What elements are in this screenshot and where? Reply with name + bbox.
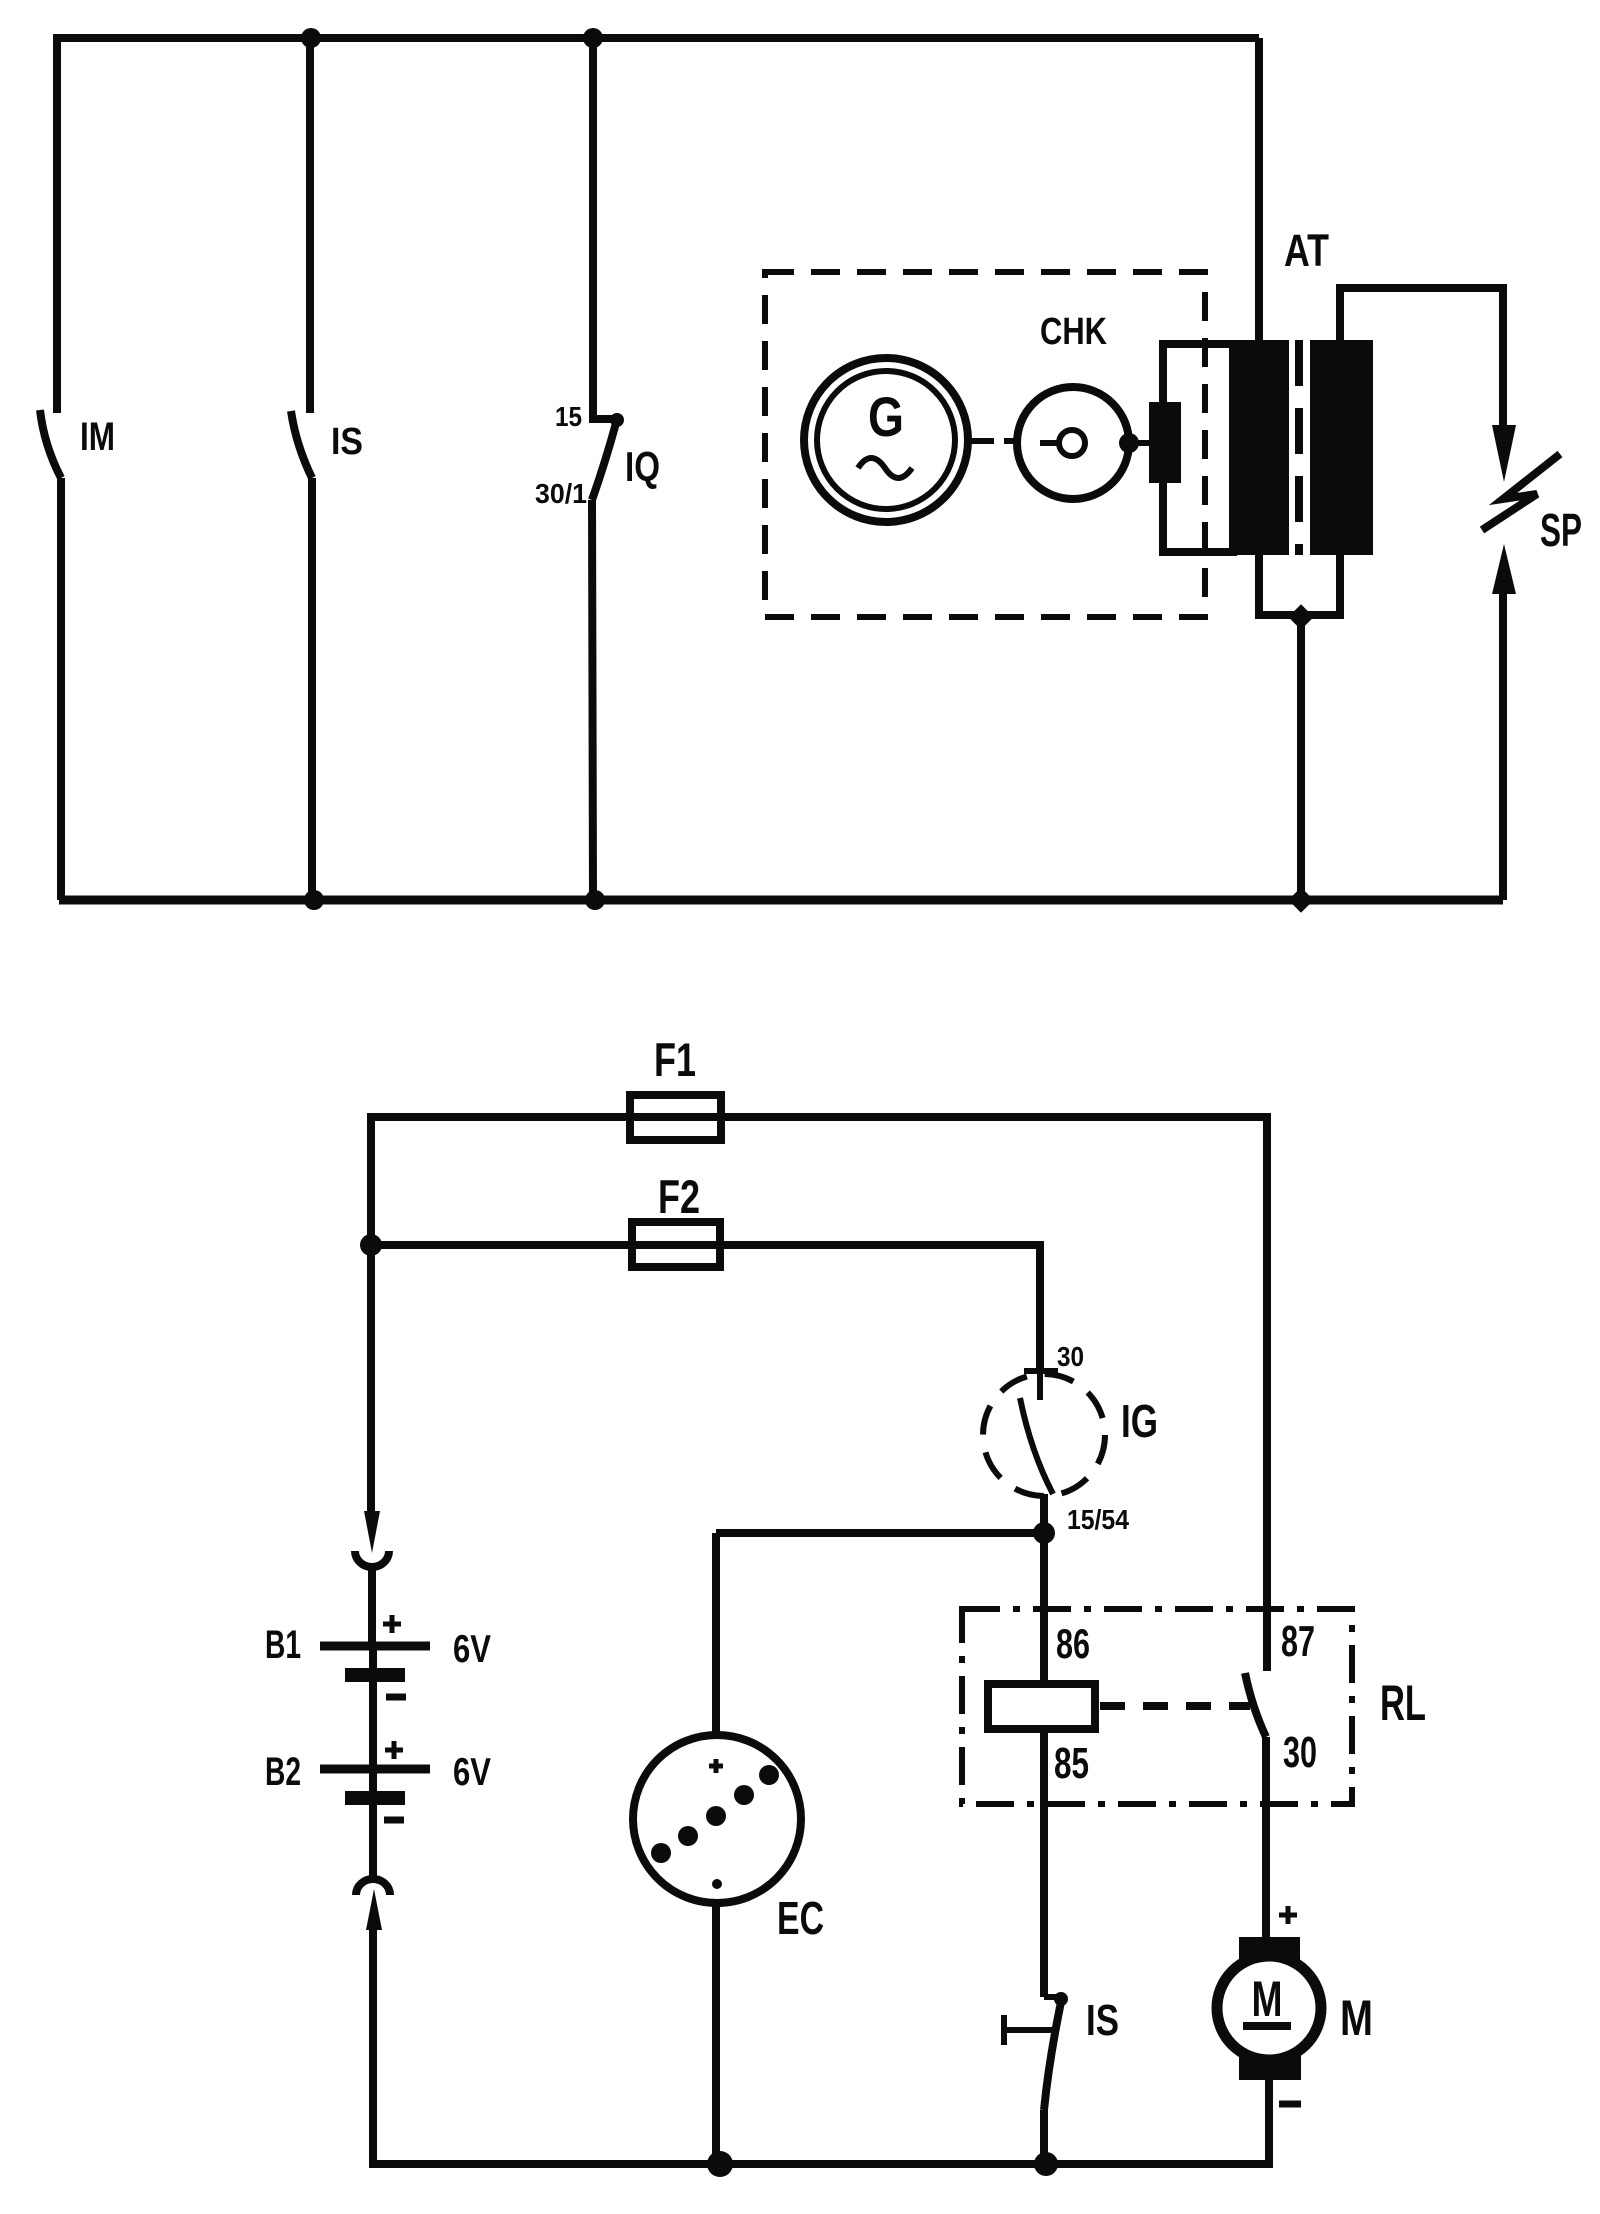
node CHK output dot [1119, 433, 1151, 453]
wire SP to bottom rail [1499, 592, 1507, 900]
svg-text:IS: IS [331, 421, 363, 463]
wire B1 to B2 [369, 1646, 377, 1769]
svg-text:SP: SP [1540, 504, 1582, 556]
CHK inner contact [1040, 430, 1085, 456]
wire IM bottom [57, 478, 65, 900]
label F1 [654, 1033, 696, 1086]
distributor EC circle [633, 1735, 801, 1903]
wire relay contact feed [1263, 1113, 1271, 1671]
node EC bottom junction [707, 2151, 733, 2177]
battery connector lower [356, 1879, 390, 1930]
wire IS drop [306, 34, 314, 413]
transformer AT secondary winding bar [1310, 340, 1373, 555]
label IS bottom [1086, 1996, 1119, 2045]
label RL [1380, 1675, 1426, 1731]
svg-text:87: 87 [1281, 1617, 1315, 1666]
transformer AT primary tap block [1149, 402, 1181, 483]
svg-text:85: 85 [1054, 1739, 1089, 1788]
distributor EC plus mark [709, 1759, 723, 1773]
label G [868, 385, 904, 448]
wire AT junction to bottom rail [1297, 617, 1305, 900]
motor M top cap [1239, 1937, 1300, 1961]
label SP [1540, 504, 1582, 556]
wire IG to node 15/54 [1040, 1494, 1048, 1533]
label 15/54 [1067, 1504, 1129, 1535]
relay RL contact blade [1245, 1673, 1266, 1737]
label EC [777, 1892, 824, 1944]
svg-text:IG: IG [1121, 1395, 1158, 1447]
wire bottom rail top circuit [59, 896, 1503, 905]
wire IQ bottom [592, 500, 593, 900]
label 30 relay [1283, 1728, 1317, 1777]
svg-text:B1: B1 [265, 1623, 301, 1667]
wire top rail [57, 34, 1259, 42]
motor M minus [1279, 2101, 1301, 2108]
label M [1340, 1990, 1373, 2046]
wire bottom circuit top rail [371, 1113, 1267, 1121]
label 87 [1281, 1617, 1315, 1666]
battery B1 plus [383, 1615, 401, 1633]
wire motor to bottom rail [1265, 2080, 1273, 2168]
node bottom rail junction 2 [585, 890, 605, 910]
label F2 [658, 1170, 700, 1223]
wire contact to motor [1262, 1737, 1270, 1937]
battery B2 minus [384, 1817, 404, 1824]
node top rail junction 2 [583, 28, 603, 48]
generator sine symbol [858, 458, 912, 478]
label 15 [555, 401, 582, 432]
motor M body [1217, 1956, 1321, 2060]
svg-text:IM: IM [80, 415, 115, 459]
wire node to relay coil [1040, 1533, 1048, 1684]
wire node to EC branch [716, 1533, 1044, 1735]
motor M bottom cap [1239, 2056, 1301, 2080]
spark gap SP arrow down [1492, 425, 1516, 482]
wire F2 row [371, 1245, 1040, 1369]
label IG [1121, 1395, 1158, 1447]
node bottom rail junction 3 [1288, 887, 1313, 912]
node F2 tap junction [360, 1234, 382, 1256]
label 30 IG [1057, 1341, 1084, 1372]
ignition switch IG dashed circle [983, 1374, 1105, 1496]
wire AT bottom loop [1255, 555, 1344, 615]
label 30/1 [535, 478, 587, 509]
battery B2 negative plate [345, 1791, 405, 1805]
wire left edge [53, 34, 61, 413]
fuse F2 [632, 1222, 720, 1267]
label IQ [625, 443, 660, 490]
svg-text:6V: 6V [453, 1628, 491, 1671]
svg-text:AT: AT [1284, 225, 1329, 276]
battery B2 positive plate [320, 1765, 430, 1774]
switch IM [40, 410, 61, 478]
fuse F1 [630, 1095, 721, 1140]
battery B1 minus [386, 1694, 406, 1701]
transformer AT primary winding bar [1229, 340, 1289, 555]
svg-text:M: M [1340, 1990, 1373, 2046]
label 6V B2 [453, 1751, 491, 1794]
wire right edge to AT primary [1255, 38, 1263, 340]
label B1 [265, 1623, 301, 1667]
switch IS top [291, 411, 312, 478]
wire B2 down [369, 1769, 377, 1878]
switch IS bottom [1044, 1992, 1068, 2110]
wire IS bottom [308, 478, 316, 900]
svg-text:15/54: 15/54 [1067, 1504, 1129, 1535]
svg-text:EC: EC [777, 1892, 824, 1944]
spark gap SP arrow up [1492, 544, 1516, 594]
ignition switch IG terminal 30 tick [1024, 1371, 1058, 1400]
svg-text:6V: 6V [453, 1751, 491, 1794]
node 15/54 [1033, 1522, 1055, 1544]
transformer AT primary outline box [1163, 344, 1233, 552]
generator G [804, 358, 968, 522]
label AT [1284, 225, 1329, 276]
svg-text:IS: IS [1086, 1996, 1119, 2045]
spark gap SP bolt [1482, 454, 1560, 530]
tester dashed box [765, 272, 1205, 617]
svg-text:30: 30 [1283, 1728, 1317, 1777]
svg-text:F1: F1 [654, 1033, 696, 1086]
wire secondary top to SP [1340, 288, 1503, 425]
svg-text:M: M [1252, 1971, 1283, 2027]
label IM [80, 415, 115, 459]
wire bottom circuit bottom rail [373, 2160, 1269, 2168]
battery connector upper [355, 1511, 389, 1567]
wire IQ drop [593, 34, 613, 419]
svg-text:B2: B2 [265, 1750, 301, 1794]
motor M underline [1243, 2022, 1291, 2030]
label 85 [1054, 1739, 1089, 1788]
distributor EC contact dots [651, 1765, 779, 1889]
svg-text:CHK: CHK [1040, 311, 1107, 353]
svg-text:G: G [868, 385, 904, 448]
svg-text:RL: RL [1380, 1675, 1426, 1731]
wire EC to bottom rail [712, 1903, 720, 2164]
node AT bottom junction [1288, 604, 1313, 629]
indicator CHK circle [1017, 387, 1129, 499]
svg-text:30/1: 30/1 [535, 478, 587, 509]
wire connector to B1 [368, 1567, 376, 1643]
wire G to CHK dashed [968, 438, 1016, 444]
switch IQ [592, 413, 624, 500]
label 6V B1 [453, 1628, 491, 1671]
svg-text:IQ: IQ [625, 443, 660, 490]
wire IS to bottom rail [1040, 2110, 1048, 2164]
battery B1 positive plate [320, 1642, 430, 1651]
label B2 [265, 1750, 301, 1794]
node bottom rail junction 1 [304, 890, 324, 910]
svg-text:86: 86 [1056, 1620, 1090, 1667]
node top rail junction 1 [301, 28, 321, 48]
battery B2 plus [385, 1741, 403, 1759]
wire connector to bottom rail [369, 1928, 377, 2168]
wire bottom circuit left edge upper [367, 1113, 375, 1518]
battery B1 negative plate [345, 1668, 405, 1682]
motor M plus [1279, 1906, 1297, 1924]
svg-text:15: 15 [555, 401, 582, 432]
relay RL coil [988, 1684, 1095, 1729]
svg-text:F2: F2 [658, 1170, 700, 1223]
label IS top [331, 421, 363, 463]
transformer AT core dashed [1295, 340, 1303, 555]
ignition switch IG blade [1020, 1398, 1053, 1494]
motor M letter [1252, 1971, 1283, 2027]
svg-text:30: 30 [1057, 1341, 1084, 1372]
node IS bottom junction [1034, 2152, 1058, 2176]
switch IS pushrod [1004, 2015, 1057, 2045]
wire coil to IS [1040, 1729, 1048, 1997]
relay RL dash-dot box [962, 1609, 1352, 1804]
label CHK [1040, 311, 1107, 353]
label 86 [1056, 1620, 1090, 1667]
relay RL link dashed [1100, 1702, 1250, 1710]
